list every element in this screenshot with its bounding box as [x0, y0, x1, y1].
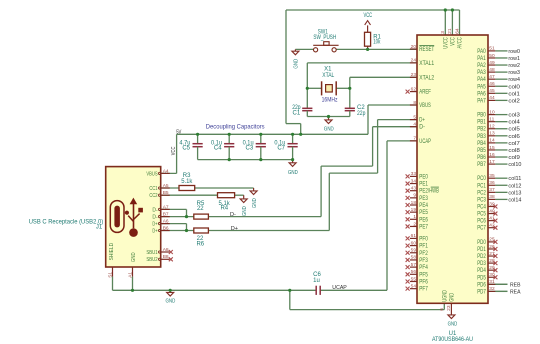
- svg-text:col9: col9: [508, 155, 520, 161]
- svg-text:61: 61: [411, 233, 417, 239]
- svg-text:12: 12: [489, 124, 495, 130]
- svg-text:X1: X1: [324, 66, 332, 72]
- svg-text:J1: J1: [96, 225, 103, 231]
- svg-text:A1: A1: [127, 272, 133, 278]
- svg-text:59: 59: [411, 248, 417, 254]
- svg-text:B7: B7: [163, 212, 169, 218]
- svg-text:57: 57: [411, 262, 417, 268]
- svg-text:row0: row0: [508, 49, 520, 55]
- svg-text:39: 39: [489, 201, 495, 207]
- svg-text:B8: B8: [163, 254, 169, 260]
- svg-text:D-: D-: [152, 207, 157, 213]
- svg-text:PB7: PB7: [477, 162, 486, 168]
- svg-text:VCC: VCC: [451, 37, 457, 46]
- svg-text:38: 38: [489, 194, 495, 200]
- svg-text:44: 44: [489, 95, 495, 101]
- svg-text:REB: REB: [510, 282, 521, 288]
- svg-text:PF7: PF7: [419, 287, 428, 293]
- svg-text:1u: 1u: [313, 278, 320, 284]
- svg-text:46: 46: [489, 81, 495, 87]
- svg-text:SHIELD: SHIELD: [109, 243, 115, 261]
- svg-text:col13: col13: [508, 190, 521, 196]
- svg-text:col3: col3: [508, 113, 520, 119]
- svg-text:18: 18: [411, 200, 417, 206]
- svg-text:B6: B6: [163, 225, 169, 231]
- svg-text:PA5: PA5: [477, 84, 486, 90]
- svg-text:A7: A7: [163, 204, 169, 210]
- svg-text:col4: col4: [508, 120, 520, 126]
- svg-text:SBU1: SBU1: [146, 250, 157, 256]
- svg-text:VBUS: VBUS: [419, 103, 431, 109]
- svg-text:35: 35: [489, 173, 495, 179]
- svg-text:5: 5: [413, 114, 416, 120]
- svg-text:GND: GND: [166, 299, 176, 305]
- svg-text:row3: row3: [508, 70, 520, 76]
- svg-text:58: 58: [411, 255, 417, 261]
- svg-text:PF4: PF4: [419, 265, 428, 271]
- svg-text:42: 42: [489, 222, 495, 228]
- svg-text:AREF: AREF: [419, 90, 431, 96]
- svg-text:col5: col5: [508, 127, 520, 133]
- svg-text:D+: D+: [152, 222, 157, 228]
- svg-text:PC5: PC5: [477, 212, 486, 218]
- svg-text:col6: col6: [508, 134, 520, 140]
- svg-text:PB0: PB0: [477, 113, 486, 119]
- svg-text:col7: col7: [508, 141, 520, 147]
- svg-text:20: 20: [411, 44, 417, 50]
- svg-text:PD7: PD7: [477, 289, 486, 295]
- svg-text:C4: C4: [214, 146, 222, 152]
- svg-text:GND: GND: [324, 126, 334, 132]
- svg-text:5.1k: 5.1k: [181, 179, 193, 185]
- svg-text:PE6: PE6: [419, 217, 428, 223]
- svg-text:col12: col12: [508, 183, 521, 189]
- svg-text:C3: C3: [246, 146, 254, 152]
- svg-text:PD2: PD2: [477, 254, 486, 260]
- svg-text:PD5: PD5: [477, 275, 486, 281]
- svg-text:/HWB: /HWB: [428, 189, 439, 195]
- svg-text:UCAP: UCAP: [419, 139, 431, 145]
- svg-text:PE5: PE5: [419, 210, 428, 216]
- svg-text:PD3: PD3: [477, 261, 486, 267]
- svg-text:14: 14: [489, 138, 495, 144]
- svg-text:VBUS: VBUS: [146, 171, 157, 177]
- svg-text:col10: col10: [508, 162, 521, 168]
- svg-text:7: 7: [413, 136, 416, 142]
- svg-text:2: 2: [413, 221, 416, 227]
- svg-text:PA0: PA0: [477, 49, 486, 55]
- svg-text:PF6: PF6: [419, 279, 428, 285]
- svg-text:PA6: PA6: [477, 91, 486, 97]
- svg-text:PA2: PA2: [477, 63, 486, 69]
- svg-text:XTAL: XTAL: [322, 73, 335, 79]
- svg-text:11: 11: [489, 116, 494, 122]
- svg-text:row4: row4: [508, 77, 520, 83]
- svg-text:51: 51: [489, 46, 495, 52]
- svg-text:GND: GND: [448, 322, 458, 328]
- svg-text:5V: 5V: [176, 130, 181, 136]
- svg-text:C5: C5: [182, 146, 190, 152]
- svg-text:D+: D+: [419, 118, 425, 124]
- svg-text:XTAL2: XTAL2: [419, 75, 434, 81]
- svg-text:col0: col0: [508, 84, 520, 90]
- svg-text:23: 23: [446, 305, 452, 311]
- svg-text:S1: S1: [107, 272, 113, 278]
- svg-text:D-: D-: [419, 125, 425, 131]
- svg-text:49: 49: [489, 60, 495, 66]
- svg-text:R4: R4: [220, 206, 228, 212]
- svg-text:48: 48: [489, 67, 495, 73]
- svg-text:56: 56: [411, 269, 417, 275]
- svg-text:SBU2: SBU2: [146, 257, 157, 263]
- svg-text:40: 40: [489, 208, 495, 214]
- svg-text:PF2: PF2: [419, 251, 428, 257]
- svg-text:GND: GND: [131, 252, 137, 262]
- svg-text:PB2: PB2: [477, 127, 486, 133]
- svg-text:50: 50: [489, 53, 495, 59]
- svg-text:34: 34: [411, 178, 417, 184]
- svg-text:Decoupling Capacitors: Decoupling Capacitors: [206, 125, 265, 131]
- svg-text:col11: col11: [508, 176, 521, 182]
- svg-text:PE3: PE3: [419, 196, 428, 202]
- svg-text:30: 30: [489, 272, 495, 278]
- svg-text:13: 13: [489, 131, 495, 137]
- svg-text:USB C Receptacle (USB2.0): USB C Receptacle (USB2.0): [29, 219, 104, 225]
- svg-text:col14: col14: [508, 197, 521, 203]
- svg-text:B5: B5: [163, 190, 169, 196]
- svg-text:PB1: PB1: [477, 120, 486, 126]
- svg-text:26: 26: [489, 244, 495, 250]
- svg-text:PF0: PF0: [419, 236, 428, 242]
- svg-text:55: 55: [411, 276, 417, 282]
- svg-text:64: 64: [454, 28, 460, 34]
- svg-text:PC6: PC6: [477, 219, 486, 225]
- svg-text:VCC: VCC: [171, 147, 177, 156]
- svg-text:UCAP: UCAP: [332, 285, 347, 291]
- svg-text:GND: GND: [242, 206, 248, 216]
- svg-text:32: 32: [489, 286, 495, 292]
- svg-text:3: 3: [440, 31, 446, 34]
- svg-text:SW_PUSH: SW_PUSH: [313, 35, 336, 41]
- svg-text:A4: A4: [163, 168, 169, 174]
- svg-text:36: 36: [489, 180, 495, 186]
- svg-text:PC4: PC4: [477, 204, 486, 210]
- svg-text:PB6: PB6: [477, 155, 486, 161]
- svg-text:29: 29: [489, 265, 495, 271]
- svg-text:PB4: PB4: [477, 141, 486, 147]
- svg-text:PB5: PB5: [477, 148, 486, 154]
- svg-text:54: 54: [411, 283, 417, 289]
- svg-text:PE0: PE0: [419, 174, 428, 180]
- svg-text:45: 45: [489, 88, 495, 94]
- svg-text:PA3: PA3: [477, 70, 486, 76]
- svg-text:PB3: PB3: [477, 134, 486, 140]
- svg-text:8: 8: [413, 100, 416, 106]
- svg-text:41: 41: [489, 215, 495, 221]
- svg-text:27: 27: [489, 251, 495, 257]
- svg-text:AT90USB646-AU: AT90USB646-AU: [432, 337, 473, 343]
- svg-text:PA7: PA7: [477, 98, 486, 104]
- svg-text:60: 60: [411, 240, 417, 246]
- svg-text:16MHz: 16MHz: [322, 98, 338, 104]
- svg-text:col2: col2: [508, 98, 520, 104]
- svg-text:1: 1: [413, 214, 416, 220]
- svg-text:row1: row1: [508, 56, 520, 62]
- svg-text:25: 25: [489, 237, 495, 243]
- svg-text:D-: D-: [230, 212, 236, 218]
- svg-text:col1: col1: [508, 91, 520, 97]
- svg-text:GND: GND: [293, 59, 299, 69]
- svg-text:GND: GND: [288, 170, 298, 176]
- svg-text:UGND: UGND: [442, 290, 448, 302]
- svg-text:row2: row2: [508, 63, 520, 69]
- svg-text:REA: REA: [510, 289, 521, 295]
- svg-text:AVCC: AVCC: [458, 37, 464, 49]
- svg-text:31: 31: [489, 279, 495, 285]
- svg-text:33: 33: [411, 171, 417, 177]
- svg-text:37: 37: [489, 187, 495, 193]
- svg-text:PC0: PC0: [477, 176, 486, 182]
- svg-text:PF3: PF3: [419, 258, 428, 264]
- svg-text:A6: A6: [163, 219, 169, 225]
- svg-text:RESET: RESET: [419, 47, 434, 53]
- svg-text:UVCC: UVCC: [443, 37, 449, 49]
- svg-text:22: 22: [197, 206, 204, 212]
- svg-text:19: 19: [411, 207, 417, 213]
- svg-text:GND: GND: [450, 293, 456, 302]
- svg-text:15: 15: [489, 145, 495, 151]
- svg-text:col8: col8: [508, 148, 520, 154]
- svg-text:22p: 22p: [357, 111, 366, 117]
- svg-text:D-: D-: [152, 215, 157, 221]
- svg-text:D+: D+: [152, 228, 157, 234]
- svg-text:XTAL1: XTAL1: [419, 61, 434, 67]
- svg-text:GND: GND: [252, 198, 258, 208]
- svg-text:10: 10: [489, 109, 495, 115]
- svg-text:C1: C1: [293, 111, 301, 117]
- svg-text:PD6: PD6: [477, 282, 486, 288]
- svg-text:PF5: PF5: [419, 272, 428, 278]
- svg-text:21: 21: [447, 28, 453, 34]
- svg-text:9: 9: [413, 193, 416, 199]
- svg-text:47: 47: [489, 74, 495, 80]
- svg-text:16: 16: [489, 152, 495, 158]
- svg-text:10k: 10k: [373, 39, 381, 45]
- svg-text:24: 24: [411, 58, 417, 64]
- svg-text:PE7: PE7: [419, 224, 428, 230]
- svg-text:PE1: PE1: [419, 182, 428, 188]
- svg-text:PE4: PE4: [419, 203, 428, 209]
- svg-text:PD4: PD4: [477, 268, 486, 274]
- svg-text:D+: D+: [231, 226, 238, 232]
- svg-text:PC1: PC1: [477, 183, 486, 189]
- svg-text:62: 62: [411, 86, 417, 92]
- svg-text:28: 28: [489, 258, 495, 264]
- svg-text:CC1: CC1: [149, 186, 157, 192]
- svg-text:C7: C7: [277, 146, 285, 152]
- svg-text:PF1: PF1: [419, 244, 428, 250]
- svg-text:PC2: PC2: [477, 190, 486, 196]
- svg-text:CC2: CC2: [149, 193, 157, 199]
- svg-text:4: 4: [413, 122, 416, 128]
- svg-text:PA4: PA4: [477, 77, 486, 83]
- svg-text:PD1: PD1: [477, 247, 486, 253]
- svg-text:A8: A8: [163, 247, 169, 253]
- svg-text:R6: R6: [196, 241, 204, 247]
- svg-text:43: 43: [411, 186, 417, 192]
- svg-text:VCC: VCC: [364, 13, 373, 19]
- svg-text:PD0: PD0: [477, 240, 486, 246]
- svg-text:23: 23: [411, 72, 417, 78]
- svg-text:17: 17: [489, 159, 495, 165]
- svg-text:PC3: PC3: [477, 197, 486, 203]
- svg-text:A5: A5: [163, 183, 169, 189]
- svg-text:PC7: PC7: [477, 226, 486, 232]
- svg-text:6: 6: [439, 308, 445, 311]
- svg-text:PA1: PA1: [477, 56, 486, 62]
